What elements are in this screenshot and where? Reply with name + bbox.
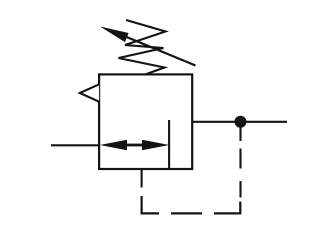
pilot dashed line: stub below junction dot — [239, 127, 241, 141]
pilot dashed line: right vertical dash (lower) — [239, 181, 241, 198]
internal double-headed flow arrow — [100, 140, 170, 151]
output port line (right) — [192, 121, 287, 123]
valve body box — [99, 74, 192, 169]
pilot dashed line: bottom middle dash — [171, 212, 202, 214]
internal outlet passage line — [168, 120, 170, 169]
adjustment spring (zigzag) — [119, 20, 166, 74]
adjustability arrow crossing spring — [100, 27, 196, 66]
relief exhaust triangle (left, open) — [80, 84, 99, 101]
pilot dashed line: right vertical dash (middle) — [239, 149, 241, 169]
input port line (left) — [51, 144, 100, 146]
pilot dashed line: bottom-left corner L dash — [142, 196, 159, 213]
pilot feedback dashed line: left vertical segment from box — [141, 169, 143, 188]
pilot dashed line: bottom-right corner L dash — [214, 202, 240, 214]
junction node dot — [235, 116, 247, 128]
